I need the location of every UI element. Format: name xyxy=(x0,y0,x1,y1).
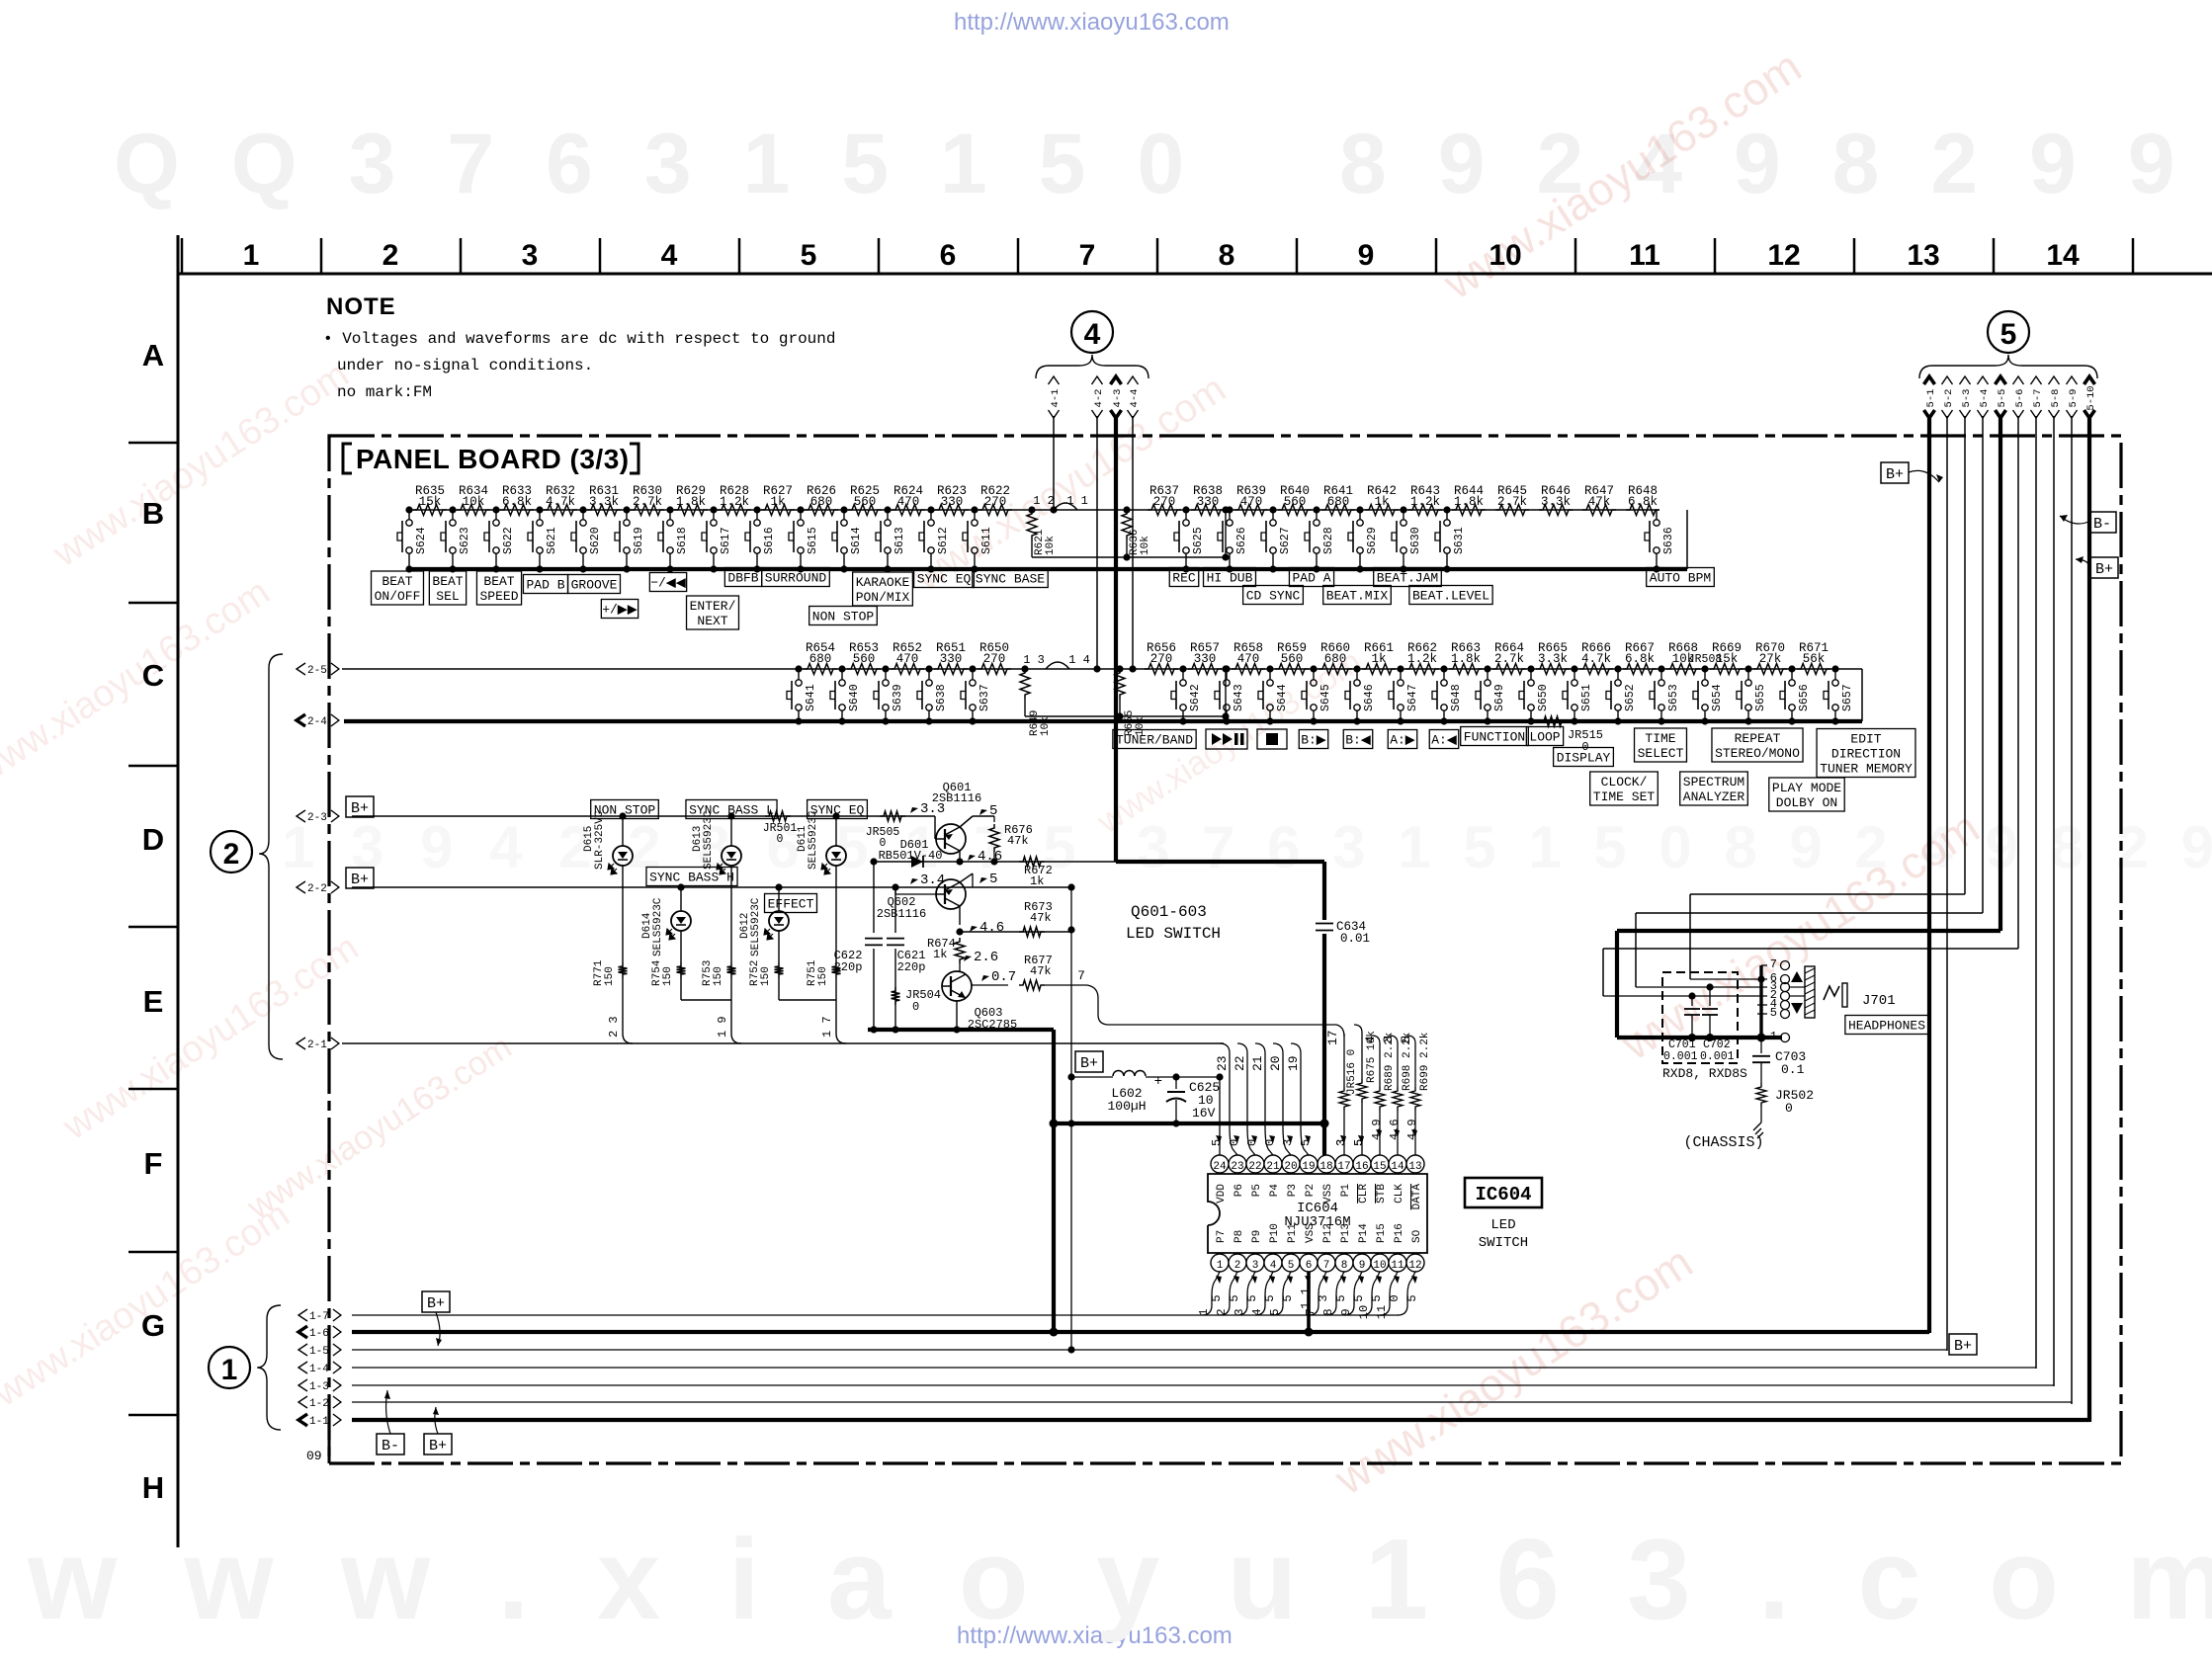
svg-text:S626: S626 xyxy=(1235,527,1248,554)
svg-text:B+: B+ xyxy=(1886,466,1904,483)
ic pin 1 P7 xyxy=(1211,1254,1229,1272)
svg-text:SPEED: SPEED xyxy=(479,589,518,604)
svg-text:TIME SET: TIME SET xyxy=(1593,789,1656,804)
connector 5 brace xyxy=(1919,355,2097,378)
svg-text:KARAOKE: KARAOKE xyxy=(856,575,910,590)
connector arrow 5-9 xyxy=(2067,376,2078,384)
svg-text:2SB1116: 2SB1116 xyxy=(932,791,981,805)
svg-text:1k: 1k xyxy=(1371,652,1386,666)
svg-text:470: 470 xyxy=(896,652,919,666)
resistor R677 47k xyxy=(972,984,1008,986)
label box HEADPHONES xyxy=(1845,1016,1928,1035)
bold wire 4-3 horizontal xyxy=(1116,860,1324,864)
wire 1-4 xyxy=(352,1367,2036,1369)
svg-text:DISPLAY: DISPLAY xyxy=(1557,751,1611,766)
svg-text:PON/MIX: PON/MIX xyxy=(856,590,910,605)
wire 5-4 vertical xyxy=(1982,416,1984,913)
resistor JR504 0 xyxy=(892,987,900,1005)
connector arrow 2-3 xyxy=(297,810,305,822)
svg-text:24: 24 xyxy=(1213,1161,1227,1173)
svg-text:SELECT: SELECT xyxy=(1638,746,1684,761)
voltage 0.7 xyxy=(981,975,989,981)
ic pin 10 P15 xyxy=(1371,1254,1389,1272)
switch S646 xyxy=(1353,665,1360,672)
switch S628 xyxy=(1313,506,1319,513)
switch S622 xyxy=(492,506,499,513)
connector arrow 5-6 xyxy=(2013,376,2024,384)
svg-text:47k: 47k xyxy=(1030,911,1052,925)
resistor JR501 0 xyxy=(765,811,791,821)
resistor R689 2.2k xyxy=(1372,1036,1380,1043)
connector arrow 2-5 xyxy=(297,663,305,675)
svg-text:270: 270 xyxy=(1150,652,1173,666)
switch S638 xyxy=(925,665,932,672)
svg-text:SURROUND: SURROUND xyxy=(765,571,827,586)
wire hop row2 xyxy=(1046,662,1069,669)
svg-text:S617: S617 xyxy=(720,527,732,554)
label box SYNC BASE xyxy=(973,569,1048,588)
svg-text:22: 22 xyxy=(1233,1055,1247,1071)
svg-text:5: 5 xyxy=(1245,1294,1259,1301)
voltage 4.6 Q601 xyxy=(968,855,976,861)
wire 2-2 vertical x1084 xyxy=(1070,887,1072,1350)
svg-text:5-1: 5-1 xyxy=(1925,389,1937,408)
svg-text:SYNC EQ: SYNC EQ xyxy=(917,572,972,587)
svg-text:1-6: 1-6 xyxy=(309,1328,329,1340)
svg-text:P11: P11 xyxy=(1287,1223,1299,1243)
svg-text:5-8: 5-8 xyxy=(2050,389,2062,408)
svg-text:S656: S656 xyxy=(1798,684,1811,711)
svg-text:ON/OFF: ON/OFF xyxy=(375,589,421,604)
switch S641 xyxy=(795,665,802,672)
svg-text:10: 10 xyxy=(1489,239,1521,272)
ic pin 2 P8 xyxy=(1229,1254,1246,1272)
svg-text:2-3: 2-3 xyxy=(307,812,327,824)
svg-text:5-4: 5-4 xyxy=(1979,389,1991,408)
switch S613 xyxy=(884,506,891,513)
svg-text:Q Q 3 7 6 3 1 5 1 5 0: Q Q 3 7 6 3 1 5 1 5 0 xyxy=(114,117,1198,211)
label box BEAT.JAM xyxy=(1374,568,1442,587)
svg-text:14: 14 xyxy=(1391,1161,1404,1173)
svg-text:B:◀: B:◀ xyxy=(1345,733,1371,748)
svg-text:w w w . x i a o y u 1 6 3 . c: w w w . x i a o y u 1 6 3 . c o m xyxy=(27,1515,2212,1643)
switch S644 xyxy=(1266,665,1273,672)
svg-text:1k: 1k xyxy=(933,948,947,961)
label B+ below 1-1 xyxy=(424,1434,452,1454)
connector 1 brace xyxy=(257,1305,281,1430)
svg-text:220p: 220p xyxy=(897,960,926,974)
svg-text:8: 8 xyxy=(1341,1260,1348,1272)
wires from ic pins bottom xyxy=(1202,1272,1220,1315)
svg-text:19: 19 xyxy=(1302,1161,1315,1173)
label box DBFB xyxy=(724,568,761,587)
connector 4 circle xyxy=(1071,311,1113,353)
svg-text:15: 15 xyxy=(1373,1161,1386,1173)
wire row1 sub link xyxy=(1032,556,1226,558)
switch S625 xyxy=(1182,506,1189,513)
svg-text:P1: P1 xyxy=(1340,1184,1352,1198)
svg-text:SEL: SEL xyxy=(436,589,459,604)
label box TIME SELECT xyxy=(1635,728,1687,762)
connector arrow 5-5 xyxy=(1996,376,2006,384)
svg-text:A:◀: A:◀ xyxy=(1431,733,1457,748)
panel board dash-dot border xyxy=(329,436,2121,1463)
resistor JR502 0 xyxy=(1756,1083,1766,1107)
connector arrow 4-3 xyxy=(1111,376,1122,384)
svg-text:9: 9 xyxy=(1339,1308,1353,1315)
svg-text:1-3: 1-3 xyxy=(309,1381,329,1393)
ic pin 16 CLR xyxy=(1353,1155,1371,1173)
capacitor C702 0.001 xyxy=(1706,983,1713,990)
svg-text:B+: B+ xyxy=(427,1295,445,1312)
label B+ near row1 right xyxy=(1881,462,1909,483)
svg-text:21: 21 xyxy=(1250,1055,1265,1071)
resistor R649 10k xyxy=(1020,669,1030,699)
svg-text:2.6: 2.6 xyxy=(974,950,998,965)
wire 2-2 line xyxy=(352,886,929,888)
svg-text:P15: P15 xyxy=(1376,1223,1388,1243)
wire 4-4 xyxy=(1132,416,1134,669)
svg-text:B-: B- xyxy=(382,1438,399,1454)
svg-text:TIME: TIME xyxy=(1645,731,1675,746)
svg-text:JR504: JR504 xyxy=(905,988,941,1002)
label box A:◀ xyxy=(1429,730,1458,749)
svg-text:JR516 0: JR516 0 xyxy=(1346,1049,1358,1095)
svg-text:5-2: 5-2 xyxy=(1943,389,1955,408)
svg-text:16: 16 xyxy=(1355,1161,1368,1173)
connector arrow 1-2 xyxy=(298,1396,307,1408)
resistor R621 10k xyxy=(1027,510,1037,540)
svg-text:0: 0 xyxy=(912,1000,919,1014)
switch S611 xyxy=(971,506,978,513)
jack bold vertical xyxy=(1759,965,1762,1038)
svg-text:P14: P14 xyxy=(1358,1223,1370,1243)
ic pin 24 VDD xyxy=(1211,1155,1229,1173)
label box PLAY MODE DOLBY ON xyxy=(1769,778,1844,811)
svg-text:CLK: CLK xyxy=(1394,1184,1405,1204)
svg-text:21: 21 xyxy=(1266,1161,1280,1173)
switch S647 xyxy=(1397,665,1404,672)
transistor Q603 2SC2785 xyxy=(942,971,972,1001)
label B+ on 2-3 xyxy=(346,796,374,817)
wire 5-7 vertical xyxy=(2035,416,2037,1369)
svg-text:0: 0 xyxy=(1263,1139,1277,1146)
svg-text:BEAT.JAM: BEAT.JAM xyxy=(1377,571,1438,586)
svg-text:• Voltages and waveforms are d: • Voltages and waveforms are dc with res… xyxy=(323,330,835,348)
svg-text:S649: S649 xyxy=(1493,684,1506,711)
svg-text:560: 560 xyxy=(1281,652,1304,666)
svg-text:P16: P16 xyxy=(1394,1223,1405,1243)
connector 2 brace xyxy=(259,654,283,1059)
svg-text:S611: S611 xyxy=(980,527,993,554)
ic pin 9 P14 xyxy=(1353,1254,1371,1272)
switch S649 xyxy=(1484,665,1490,672)
svg-text:9: 9 xyxy=(1359,1260,1366,1272)
svg-text:3: 3 xyxy=(522,239,539,272)
connector arrow 1-1 xyxy=(298,1414,307,1426)
svg-text:CD SYNC: CD SYNC xyxy=(1246,589,1301,604)
svg-text:5: 5 xyxy=(1770,1006,1777,1020)
label B- right xyxy=(2088,512,2116,533)
switch S627 xyxy=(1269,506,1276,513)
wire B+ rail to pin24 xyxy=(1176,1076,1220,1078)
svg-text:0.001: 0.001 xyxy=(1663,1050,1698,1063)
wire 5-3 vertical xyxy=(1964,416,1966,894)
svg-text:150: 150 xyxy=(713,966,724,986)
svg-text:2-1: 2-1 xyxy=(307,1039,327,1051)
label B+ on 2-2 xyxy=(346,868,374,888)
voltage 5 Q602 xyxy=(979,877,987,883)
svg-text:560: 560 xyxy=(853,652,876,666)
svg-text:B+: B+ xyxy=(351,872,369,888)
wire 5-3 to jack xyxy=(1690,893,1965,895)
svg-text:P10: P10 xyxy=(1269,1223,1281,1243)
switch S640 xyxy=(838,665,845,672)
svg-text:EFFECT: EFFECT xyxy=(768,897,814,912)
svg-text:DATA: DATA xyxy=(1411,1184,1423,1210)
ic pin 19 P2 xyxy=(1300,1155,1318,1173)
label box DISPLAY xyxy=(1554,748,1614,767)
svg-text:B:▶: B:▶ xyxy=(1301,733,1326,748)
connector arrow 5-4 xyxy=(1978,376,1989,384)
svg-text:2: 2 xyxy=(223,838,240,871)
svg-text:13: 13 xyxy=(1907,239,1939,272)
ic pin 7 P12 xyxy=(1318,1254,1335,1272)
ic pin 20 P3 xyxy=(1282,1155,1300,1173)
label box B:◀ xyxy=(1343,730,1372,749)
svg-text:A: A xyxy=(142,338,164,373)
svg-text:IC604: IC604 xyxy=(1475,1184,1531,1205)
svg-text:SYNC BASE: SYNC BASE xyxy=(976,572,1045,587)
wires to ic pins 23-19 xyxy=(1220,1043,1237,1155)
svg-text:P5: P5 xyxy=(1251,1184,1263,1197)
svg-text:S643: S643 xyxy=(1233,684,1245,711)
svg-text:E: E xyxy=(143,984,164,1019)
resistor R698 2.2k xyxy=(1390,1036,1398,1043)
svg-text:150: 150 xyxy=(817,966,829,986)
svg-text:S639: S639 xyxy=(892,684,904,711)
svg-text:10k: 10k xyxy=(1040,716,1052,736)
svg-text:2: 2 xyxy=(1234,1260,1241,1272)
svg-text:LED SWITCH: LED SWITCH xyxy=(1126,925,1221,943)
svg-text:11: 11 xyxy=(1375,1305,1389,1319)
label box TUNER/BAND xyxy=(1113,730,1196,749)
svg-text:F: F xyxy=(144,1146,163,1181)
svg-text:STEREO/MONO: STEREO/MONO xyxy=(1715,746,1800,761)
svg-text:680: 680 xyxy=(809,652,832,666)
svg-text:(CHASSIS): (CHASSIS) xyxy=(1683,1134,1763,1151)
connector 1 circle xyxy=(209,1347,250,1388)
switch S615 xyxy=(797,506,804,513)
svg-text:S619: S619 xyxy=(633,527,645,554)
svg-text:5: 5 xyxy=(1299,1139,1313,1146)
svg-text:20: 20 xyxy=(1284,1161,1297,1173)
svg-text:S645: S645 xyxy=(1319,684,1332,711)
voltage 5 Q601 xyxy=(979,809,987,815)
svg-text:S631: S631 xyxy=(1453,527,1466,554)
wire 1-2 xyxy=(352,1401,2072,1403)
switch S652 xyxy=(1614,665,1621,672)
wire 5-4 to jack xyxy=(1636,912,1983,914)
svg-text:H: H xyxy=(142,1470,164,1505)
svg-text:S654: S654 xyxy=(1711,684,1724,711)
svg-text:DIRECTION: DIRECTION xyxy=(1831,747,1901,762)
svg-text:LOOP: LOOP xyxy=(1529,730,1560,745)
label box GROOVE xyxy=(568,575,621,594)
ic pin 17 P1 xyxy=(1335,1155,1353,1173)
resistor JR505 0 xyxy=(880,811,905,821)
svg-text:3: 3 xyxy=(1334,1139,1348,1146)
svg-text:S636: S636 xyxy=(1662,527,1675,554)
svg-text:09: 09 xyxy=(306,1449,322,1463)
wire to IC pin17 xyxy=(1109,1024,1336,1026)
resistor R771 150 xyxy=(619,962,628,978)
switch S629 xyxy=(1356,506,1363,513)
label box SYNC EQ led xyxy=(808,800,868,819)
wire 2-1 line xyxy=(342,1042,1224,1044)
label box stop xyxy=(1257,729,1287,749)
svg-text:0: 0 xyxy=(1245,1139,1259,1146)
svg-text:S647: S647 xyxy=(1406,684,1419,711)
ic pin 18 VSS xyxy=(1318,1155,1335,1173)
svg-text:9: 9 xyxy=(1358,239,1375,272)
wire R673 row xyxy=(956,928,963,935)
svg-text:S616: S616 xyxy=(763,527,776,554)
switch S620 xyxy=(579,506,586,513)
svg-text:220p: 220p xyxy=(834,960,863,974)
svg-text:12: 12 xyxy=(1767,239,1800,272)
svg-text:0: 0 xyxy=(777,833,784,846)
svg-text:0.001: 0.001 xyxy=(1700,1050,1735,1063)
wire 5-8 vertical xyxy=(2053,416,2055,1386)
resistor R751 150 xyxy=(832,962,841,978)
label box ENTER/ NEXT xyxy=(687,596,739,629)
svg-text:0: 0 xyxy=(1228,1139,1241,1146)
svg-text:7: 7 xyxy=(1304,1308,1318,1315)
svg-text:7: 7 xyxy=(1077,968,1085,983)
wire 1-6 bold xyxy=(352,1330,1929,1334)
svg-text:ENTER/: ENTER/ xyxy=(690,599,736,614)
capacitor C625 10 16V xyxy=(1172,1073,1179,1080)
svg-text:5: 5 xyxy=(1263,1294,1277,1301)
svg-text:S621: S621 xyxy=(546,527,558,554)
svg-text:14: 14 xyxy=(2046,239,2080,272)
svg-text:2-2: 2-2 xyxy=(307,883,327,895)
svg-text:REPEAT: REPEAT xyxy=(1735,731,1781,746)
svg-text:BEAT.MIX: BEAT.MIX xyxy=(1326,589,1389,604)
svg-text:B+: B+ xyxy=(351,800,369,817)
svg-text:S618: S618 xyxy=(676,527,689,554)
svg-text:7: 7 xyxy=(1323,1260,1330,1272)
svg-text:S641: S641 xyxy=(805,684,817,711)
bus row1 bottom xyxy=(407,567,1687,571)
connector arrow 1-4 xyxy=(298,1362,307,1373)
svg-text:B+: B+ xyxy=(2095,561,2113,578)
svg-text:0.1: 0.1 xyxy=(1781,1062,1805,1077)
connector arrow 5-1 xyxy=(1924,376,1935,384)
svg-text:1 4: 1 4 xyxy=(1068,653,1090,667)
svg-text:S646: S646 xyxy=(1363,684,1376,711)
switch S653 xyxy=(1658,665,1664,672)
connector arrow 5-2 xyxy=(1942,376,1953,384)
svg-text:4-4: 4-4 xyxy=(1129,389,1141,408)
svg-text:SELS5923C: SELS5923C xyxy=(652,897,664,956)
svg-text:3: 3 xyxy=(1317,1294,1330,1301)
connector arrow 1-3 xyxy=(298,1379,307,1391)
svg-text:P4: P4 xyxy=(1269,1184,1281,1198)
resistor R675 10k xyxy=(1354,1025,1362,1033)
wire row2 top xyxy=(342,668,1848,670)
svg-text:5: 5 xyxy=(1399,1036,1413,1043)
svg-text:PANEL BOARD (3/3): PANEL BOARD (3/3) xyxy=(356,444,630,474)
svg-text:S650: S650 xyxy=(1537,684,1550,711)
connector arrow 5-3 xyxy=(1960,376,1971,384)
connector arrow 4-2 xyxy=(1092,376,1103,384)
svg-text:1-5: 1-5 xyxy=(309,1346,329,1358)
resistor R699 2.2k xyxy=(1407,1036,1415,1043)
sheet frame horizontal line xyxy=(178,273,2212,276)
svg-text:17: 17 xyxy=(1337,1161,1350,1173)
svg-text:330: 330 xyxy=(1194,652,1217,666)
svg-text:2-5: 2-5 xyxy=(307,665,327,677)
wire 4-3 bold xyxy=(1114,416,1118,862)
svg-text:4.6: 4.6 xyxy=(979,920,1004,936)
svg-text:B+: B+ xyxy=(1080,1055,1098,1072)
wire 1-3 xyxy=(352,1384,2054,1386)
ic pin 21 P4 xyxy=(1264,1155,1282,1173)
switch S657 xyxy=(1831,665,1838,672)
svg-text:4: 4 xyxy=(1270,1260,1277,1272)
svg-text:AUTO BPM: AUTO BPM xyxy=(1650,571,1711,586)
svg-text:A:▶: A:▶ xyxy=(1390,733,1415,748)
svg-text:1: 1 xyxy=(1197,1308,1211,1315)
connector arrow 1-5 xyxy=(298,1344,307,1356)
connector arrow 1-6 xyxy=(298,1326,307,1338)
wire 5-1 vertical xyxy=(1927,416,1931,1333)
label box CD SYNC xyxy=(1243,586,1304,605)
wire 1-7 xyxy=(352,1314,1399,1316)
svg-text:SPECTRUM: SPECTRUM xyxy=(1683,775,1744,789)
svg-text:SO: SO xyxy=(1411,1229,1423,1243)
connector 5 circle xyxy=(1988,311,2029,353)
svg-text:47k: 47k xyxy=(1030,964,1052,978)
label box EFFECT led xyxy=(765,894,817,913)
svg-text:S614: S614 xyxy=(850,527,863,554)
grid row ticks xyxy=(128,442,178,445)
svg-text:1 1: 1 1 xyxy=(1066,494,1088,508)
svg-text:NON STOP: NON STOP xyxy=(812,610,875,624)
connector arrow 4-1 xyxy=(1049,376,1060,384)
svg-text:10k: 10k xyxy=(1045,536,1057,555)
sheet frame vertical line xyxy=(177,235,180,1547)
svg-text:6: 6 xyxy=(940,239,957,272)
resistor R655 10k xyxy=(1115,669,1125,699)
label box BEAT.LEVEL xyxy=(1409,586,1492,605)
svg-text:NOTE: NOTE xyxy=(326,293,396,320)
wire 5-6 to jack xyxy=(1603,948,2018,950)
switch S656 xyxy=(1788,665,1795,672)
wire 5-5 bold to jack xyxy=(1617,929,2000,933)
label box B:▶ xyxy=(1299,730,1327,749)
svg-text:19: 19 xyxy=(1286,1055,1301,1071)
svg-text:4-1: 4-1 xyxy=(1050,389,1062,408)
ic pin 6 VSS xyxy=(1300,1254,1318,1272)
svg-text:REC: REC xyxy=(1172,571,1196,586)
svg-text:3: 3 xyxy=(1233,1308,1246,1315)
svg-text:VSS: VSS xyxy=(1322,1184,1334,1204)
resistor R674 1k xyxy=(955,938,965,963)
label box IC604 xyxy=(1465,1178,1542,1207)
